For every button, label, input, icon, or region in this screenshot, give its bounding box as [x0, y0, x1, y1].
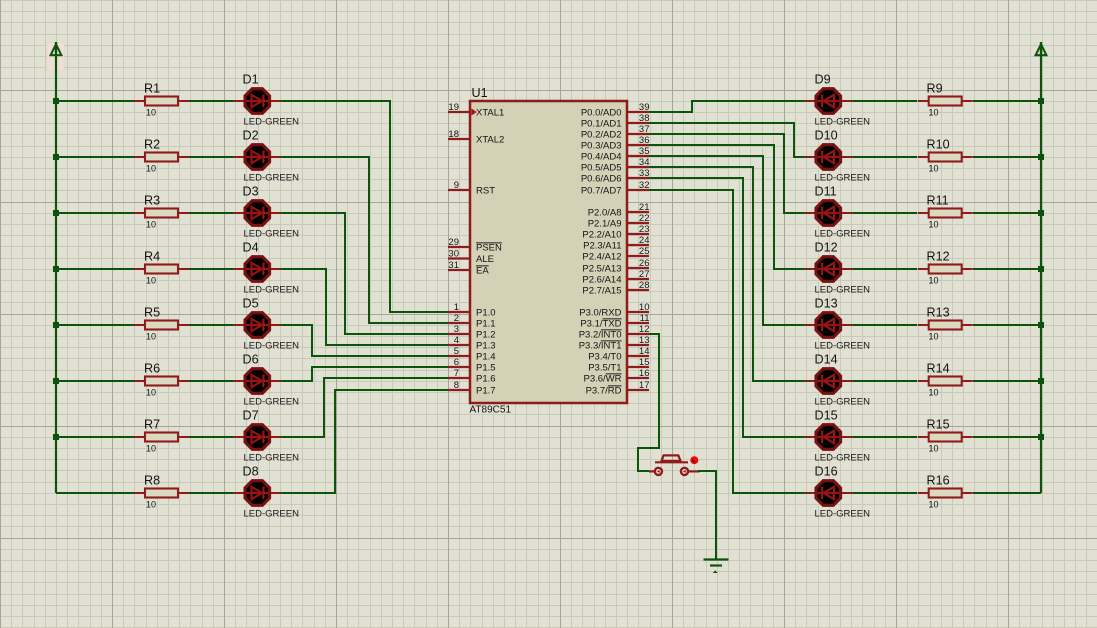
- svg-text:34: 34: [639, 157, 650, 168]
- svg-text:24: 24: [639, 235, 650, 246]
- svg-text:R14: R14: [927, 362, 950, 376]
- svg-text:14: 14: [639, 346, 650, 357]
- svg-text:29: 29: [448, 237, 459, 248]
- svg-text:9: 9: [454, 180, 459, 191]
- svg-text:11: 11: [640, 313, 650, 324]
- svg-text:XTAL1: XTAL1: [476, 107, 504, 118]
- svg-text:R12: R12: [927, 250, 950, 264]
- svg-text:R4: R4: [144, 250, 160, 264]
- svg-text:XTAL2: XTAL2: [476, 134, 504, 145]
- svg-text:D3: D3: [243, 185, 259, 199]
- svg-text:LED-GREEN: LED-GREEN: [815, 453, 871, 464]
- svg-text:4: 4: [454, 335, 459, 346]
- svg-text:P2.1/A9: P2.1/A9: [588, 218, 622, 229]
- svg-text:P3.4/T0: P3.4/T0: [588, 351, 621, 362]
- svg-text:23: 23: [639, 224, 650, 235]
- svg-text:LED-GREEN: LED-GREEN: [244, 229, 300, 240]
- svg-text:P3.3/INT1: P3.3/INT1: [579, 340, 622, 351]
- svg-text:P2.3/A11: P2.3/A11: [583, 240, 621, 251]
- svg-text:P2.2/A10: P2.2/A10: [582, 229, 621, 240]
- svg-text:LED-GREEN: LED-GREEN: [244, 341, 300, 352]
- svg-text:R5: R5: [144, 306, 160, 320]
- svg-text:R11: R11: [927, 194, 949, 208]
- svg-text:D7: D7: [243, 409, 259, 423]
- svg-text:R3: R3: [144, 194, 160, 208]
- svg-text:R13: R13: [927, 306, 950, 320]
- svg-text:31: 31: [448, 260, 459, 271]
- svg-text:30: 30: [448, 249, 459, 260]
- svg-text:33: 33: [639, 168, 650, 179]
- svg-text:10: 10: [929, 444, 939, 454]
- svg-text:21: 21: [639, 202, 650, 213]
- svg-text:R1: R1: [144, 82, 160, 96]
- svg-text:RST: RST: [476, 185, 495, 196]
- svg-text:P1.4: P1.4: [476, 351, 496, 362]
- svg-text:P1.1: P1.1: [476, 318, 496, 329]
- svg-text:LED-GREEN: LED-GREEN: [244, 397, 300, 408]
- svg-text:10: 10: [146, 332, 156, 342]
- svg-text:1: 1: [454, 302, 459, 313]
- svg-text:D10: D10: [815, 129, 838, 143]
- svg-text:P2.4/A12: P2.4/A12: [582, 251, 621, 262]
- svg-text:10: 10: [146, 220, 156, 230]
- svg-text:LED-GREEN: LED-GREEN: [244, 509, 300, 520]
- svg-text:LED-GREEN: LED-GREEN: [244, 117, 300, 128]
- svg-text:D1: D1: [243, 73, 259, 87]
- svg-text:R9: R9: [927, 82, 943, 96]
- svg-text:P0.0/AD0: P0.0/AD0: [581, 107, 622, 118]
- svg-text:LED-GREEN: LED-GREEN: [815, 341, 871, 352]
- svg-text:P1.7: P1.7: [476, 385, 496, 396]
- svg-text:P1.0: P1.0: [476, 307, 496, 318]
- svg-text:10: 10: [146, 500, 156, 510]
- svg-text:7: 7: [454, 368, 459, 379]
- svg-text:LED-GREEN: LED-GREEN: [815, 397, 871, 408]
- svg-text:39: 39: [639, 102, 650, 113]
- svg-text:LED-GREEN: LED-GREEN: [815, 173, 871, 184]
- svg-text:10: 10: [929, 164, 939, 174]
- svg-text:10: 10: [929, 332, 939, 342]
- svg-text:D14: D14: [815, 353, 838, 367]
- svg-text:28: 28: [639, 280, 650, 291]
- svg-text:R16: R16: [927, 474, 950, 488]
- svg-text:P1.5: P1.5: [476, 362, 496, 373]
- svg-text:16: 16: [639, 368, 650, 379]
- svg-text:LED-GREEN: LED-GREEN: [815, 509, 871, 520]
- svg-text:10: 10: [146, 164, 156, 174]
- svg-text:P0.7/AD7: P0.7/AD7: [581, 185, 622, 196]
- svg-text:D13: D13: [815, 297, 838, 311]
- svg-text:10: 10: [639, 302, 650, 313]
- svg-text:LED-GREEN: LED-GREEN: [244, 453, 300, 464]
- svg-text:5: 5: [454, 346, 459, 357]
- svg-text:27: 27: [639, 269, 650, 280]
- svg-text:P0.1/AD1: P0.1/AD1: [581, 118, 622, 129]
- svg-text:36: 36: [639, 135, 650, 146]
- svg-text:18: 18: [448, 129, 459, 140]
- svg-text:LED-GREEN: LED-GREEN: [244, 173, 300, 184]
- svg-text:26: 26: [639, 258, 650, 269]
- svg-text:D5: D5: [243, 297, 259, 311]
- svg-text:38: 38: [639, 113, 650, 124]
- svg-text:ALE: ALE: [476, 254, 494, 265]
- svg-text:P0.2/AD2: P0.2/AD2: [581, 129, 622, 140]
- svg-text:37: 37: [639, 124, 650, 135]
- svg-text:D4: D4: [243, 241, 259, 255]
- svg-text:10: 10: [929, 388, 939, 398]
- svg-text:10: 10: [146, 444, 156, 454]
- svg-text:D15: D15: [815, 409, 838, 423]
- svg-text:P2.6/A14: P2.6/A14: [582, 274, 621, 285]
- svg-text:2: 2: [454, 313, 459, 324]
- svg-text:P0.5/AD5: P0.5/AD5: [581, 162, 622, 173]
- svg-text:U1: U1: [472, 86, 488, 100]
- svg-text:35: 35: [639, 146, 650, 157]
- svg-text:P3.7/RD: P3.7/RD: [586, 385, 622, 396]
- svg-text:R8: R8: [144, 474, 160, 488]
- svg-text:D12: D12: [815, 241, 838, 255]
- svg-text:P1.6: P1.6: [476, 373, 496, 384]
- svg-text:P3.0/RXD: P3.0/RXD: [579, 307, 621, 318]
- svg-text:22: 22: [639, 213, 650, 224]
- svg-text:3: 3: [454, 324, 459, 335]
- svg-text:D16: D16: [815, 465, 838, 479]
- svg-text:LED-GREEN: LED-GREEN: [244, 285, 300, 296]
- svg-text:19: 19: [448, 102, 459, 113]
- svg-text:10: 10: [929, 276, 939, 286]
- svg-text:P0.3/AD3: P0.3/AD3: [581, 140, 622, 151]
- svg-text:D8: D8: [243, 465, 259, 479]
- svg-text:R7: R7: [144, 418, 160, 432]
- svg-text:LED-GREEN: LED-GREEN: [815, 117, 871, 128]
- svg-text:AT89C51: AT89C51: [470, 405, 512, 416]
- svg-text:R2: R2: [144, 138, 160, 152]
- svg-text:P3.6/WR: P3.6/WR: [583, 373, 621, 384]
- svg-text:P3.5/T1: P3.5/T1: [588, 362, 621, 373]
- svg-text:D9: D9: [815, 73, 831, 87]
- svg-text:32: 32: [639, 180, 650, 191]
- svg-text:P3.2/INT0: P3.2/INT0: [579, 329, 622, 340]
- svg-text:P0.6/AD6: P0.6/AD6: [581, 173, 622, 184]
- svg-text:12: 12: [639, 324, 650, 335]
- svg-text:P2.7/A15: P2.7/A15: [582, 285, 621, 296]
- svg-text:R15: R15: [927, 418, 950, 432]
- svg-text:D2: D2: [243, 129, 259, 143]
- svg-text:LED-GREEN: LED-GREEN: [815, 285, 871, 296]
- svg-text:13: 13: [639, 335, 650, 346]
- svg-text:10: 10: [146, 276, 156, 286]
- svg-text:P1.2: P1.2: [476, 329, 496, 340]
- svg-text:P2.5/A13: P2.5/A13: [582, 263, 621, 274]
- svg-text:17: 17: [639, 380, 650, 391]
- svg-text:25: 25: [639, 246, 650, 257]
- svg-text:6: 6: [454, 357, 459, 368]
- svg-text:PSEN: PSEN: [476, 242, 502, 253]
- svg-text:10: 10: [929, 500, 939, 510]
- svg-text:P3.1/TXD: P3.1/TXD: [580, 318, 621, 329]
- svg-text:10: 10: [929, 108, 939, 118]
- svg-text:D11: D11: [815, 185, 837, 199]
- svg-text:P1.3: P1.3: [476, 340, 496, 351]
- svg-text:15: 15: [639, 357, 650, 368]
- svg-text:10: 10: [146, 108, 156, 118]
- svg-text:10: 10: [146, 388, 156, 398]
- svg-text:10: 10: [929, 220, 939, 230]
- svg-text:D6: D6: [243, 353, 259, 367]
- svg-text:R6: R6: [144, 362, 160, 376]
- svg-text:P0.4/AD4: P0.4/AD4: [581, 151, 622, 162]
- svg-text:LED-GREEN: LED-GREEN: [815, 229, 871, 240]
- svg-text:8: 8: [454, 380, 459, 391]
- svg-text:EA: EA: [476, 265, 489, 276]
- svg-text:R10: R10: [927, 138, 950, 152]
- svg-text:P2.0/A8: P2.0/A8: [588, 207, 622, 218]
